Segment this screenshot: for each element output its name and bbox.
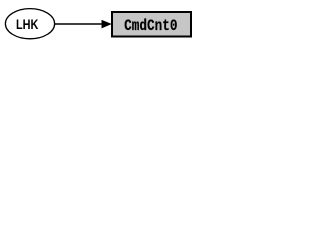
- svg-text:CmdCnt0: CmdCnt0: [124, 18, 177, 36]
- node LHK: [5, 9, 54, 39]
- svg-text:LHK: LHK: [16, 17, 38, 33]
- arrowhead: [102, 20, 111, 28]
- wire: [54, 23, 103, 25]
- node CmdCnt0: [112, 12, 191, 37]
